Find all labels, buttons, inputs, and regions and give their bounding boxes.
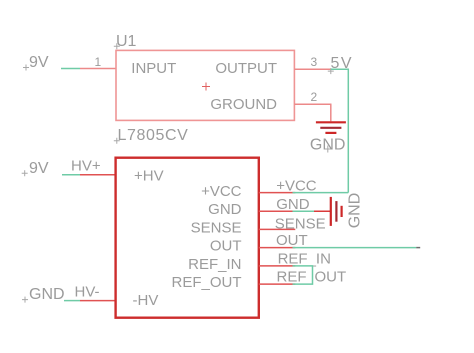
svg-text:L7805CV: L7805CV	[118, 127, 189, 144]
svg-text:-HV: -HV	[133, 292, 159, 309]
pin 2 of U1	[294, 103, 331, 105]
svg-text:U1: U1	[116, 33, 137, 50]
svg-text:GND: GND	[29, 286, 65, 303]
svg-text:9V: 9V	[29, 160, 49, 177]
svg-text:HV+: HV+	[71, 157, 101, 174]
wire 9V to pin1	[61, 68, 80, 70]
wire OUT	[293, 247, 417, 249]
svg-text:HV-: HV-	[75, 284, 100, 301]
svg-text:OUT: OUT	[276, 232, 308, 249]
svg-text:SENSE: SENSE	[275, 216, 326, 233]
svg-text:1: 1	[95, 55, 102, 69]
node 9V (top)	[23, 54, 49, 71]
ground symbol (top)	[316, 104, 346, 133]
pin 1 of U1	[80, 68, 116, 70]
svg-text:REF_OUT: REF_OUT	[171, 274, 241, 291]
svg-text:OUTPUT: OUTPUT	[215, 60, 277, 77]
svg-text:3: 3	[311, 55, 318, 69]
svg-text:REF: REF	[277, 269, 307, 286]
wire GND pin to ground	[293, 210, 315, 212]
svg-text:REF_IN: REF_IN	[188, 256, 241, 273]
svg-text:+HV: +HV	[134, 167, 164, 184]
label GND (top ground)	[310, 137, 346, 154]
svg-text:SENSE: SENSE	[191, 219, 242, 236]
svg-text:GND: GND	[276, 196, 310, 213]
ground symbol (right, rotated)	[314, 197, 342, 226]
svg-text:REF_IN: REF_IN	[278, 251, 331, 268]
svg-text:+VCC: +VCC	[276, 177, 317, 194]
node 5V label	[328, 55, 353, 74]
pin 3 of U1	[294, 68, 331, 70]
pin REF_IN	[259, 265, 296, 267]
svg-text:9V: 9V	[29, 54, 49, 71]
op-amp U1 body (L7805CV regulator)	[116, 50, 294, 120]
value L7805CV	[114, 127, 189, 144]
pin -HV	[80, 300, 116, 302]
origin cross of U1	[202, 83, 210, 91]
pin GND	[259, 210, 296, 212]
wire OUT open end	[416, 247, 420, 249]
svg-text:GND: GND	[347, 193, 364, 229]
pin SENSE	[259, 228, 296, 230]
wire +VCC to 5V rail	[293, 192, 349, 194]
svg-text:OUT: OUT	[315, 269, 347, 286]
wire GND to -HV	[64, 300, 80, 302]
svg-text:2: 2	[311, 90, 318, 104]
svg-text:GROUND: GROUND	[210, 96, 277, 113]
pin REF_OUT	[259, 283, 296, 285]
pin +VCC	[259, 192, 296, 194]
pin +HV	[80, 174, 116, 176]
svg-text:+VCC: +VCC	[201, 183, 242, 200]
node GND (bottom-left)	[22, 286, 65, 303]
svg-text:OUT: OUT	[210, 238, 242, 255]
label U1	[114, 33, 137, 50]
svg-text:INPUT: INPUT	[131, 60, 176, 77]
wire 9V to +HV	[62, 174, 80, 176]
pin OUT	[259, 247, 296, 249]
node 9V (bottom)	[22, 160, 49, 177]
wire REF_IN to REF_OUT bracket	[293, 266, 313, 284]
svg-text:GND: GND	[310, 137, 346, 154]
module body (HV supply block)	[116, 158, 259, 318]
svg-text:GND: GND	[208, 201, 242, 218]
wire 5V: pin3 to +VCC	[331, 69, 348, 192]
